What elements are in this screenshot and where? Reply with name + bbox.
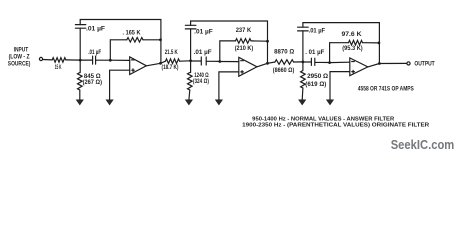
wire node D up to feedback rail stage2 bbox=[220, 41, 236, 62]
svg-text:4558 OR 741S OP AMPS: 4558 OR 741S OP AMPS bbox=[358, 86, 414, 92]
ground under R8 bbox=[299, 100, 306, 105]
wire top rail stage 3 bbox=[303, 23, 380, 64]
svg-text:(8660 Ω): (8660 Ω) bbox=[273, 68, 295, 74]
wire top rail stage 2 bbox=[191, 21, 268, 63]
wire node B up to feedback rail bbox=[110, 40, 127, 60]
wire R3 to output node bbox=[143, 39, 161, 41]
svg-text:8870 Ω: 8870 Ω bbox=[274, 50, 294, 56]
U3 plus sign bbox=[352, 70, 355, 73]
resistor R3 165K feedback bbox=[127, 38, 143, 43]
svg-text:(18.7 K): (18.7 K) bbox=[162, 65, 179, 71]
capacitor C5 .01uF (top, stage3) bbox=[298, 27, 309, 31]
wire U1 output to stage1 output node bbox=[146, 63, 160, 66]
U1 minus sign bbox=[132, 59, 135, 61]
svg-text:(619 Ω): (619 Ω) bbox=[305, 82, 326, 88]
wire node D to op-amp U2 inverting input bbox=[220, 61, 239, 63]
wire node A down to R2 bbox=[79, 60, 81, 72]
resistor R1 15K bbox=[52, 58, 66, 63]
svg-text:. 01 µF: . 01 µF bbox=[305, 49, 324, 56]
ground under U2 plus input bbox=[215, 100, 222, 105]
junction feedback rail / output vertical stage2 bbox=[266, 40, 269, 43]
node E bbox=[302, 61, 305, 64]
wire output node to R4 bbox=[161, 61, 166, 63]
wire U2 noninverting input to ground drop bbox=[219, 72, 239, 100]
resistor R2 845 ohm shunt bbox=[78, 73, 83, 91]
ground under R5 bbox=[185, 100, 192, 105]
wire output node to R7 bbox=[268, 62, 276, 63]
wire R6 to stage2 output vertical bbox=[251, 40, 268, 42]
capacitor C6 .01uF (series, stage3) bbox=[303, 58, 330, 65]
wire R1 to node A bbox=[66, 59, 80, 61]
resistor R6 237K (210K) feedback bbox=[236, 39, 252, 44]
node A bbox=[79, 59, 82, 62]
wire R2 to ground bbox=[79, 90, 81, 100]
node stage1 output bbox=[159, 62, 162, 65]
svg-text:(95.3 K): (95.3 K) bbox=[342, 46, 363, 52]
svg-text:15 K: 15 K bbox=[55, 65, 62, 71]
svg-text:.01 µF: .01 µF bbox=[194, 49, 212, 56]
svg-text:(210 K): (210 K) bbox=[235, 46, 254, 52]
wire C5 to top rail stage3 bbox=[302, 23, 304, 28]
wire node E down to R8 bbox=[301, 62, 306, 88]
wire R9 to stage3 output vertical bbox=[363, 42, 380, 44]
junction feedback rail / output vertical stage1 bbox=[159, 38, 162, 41]
U2 minus sign bbox=[241, 60, 244, 62]
svg-text:(324 Ω): (324 Ω) bbox=[193, 79, 209, 85]
wire node F to op-amp U3 inverting input bbox=[330, 61, 350, 63]
wire R4 to node C bbox=[180, 60, 191, 62]
resistor R9 97.6K (95.3K) feedback bbox=[349, 40, 363, 45]
ground under R2 bbox=[76, 100, 83, 105]
wire input to R1 bbox=[43, 59, 52, 61]
wire U1 noninverting input to ground drop bbox=[110, 70, 130, 100]
wire to output terminal bbox=[379, 62, 406, 64]
node B bbox=[109, 59, 112, 62]
capacitor C2 .01uF (series) bbox=[80, 56, 110, 64]
svg-text:(LOW - Z: (LOW - Z bbox=[9, 53, 30, 60]
wire node C down to R5 bbox=[188, 61, 193, 90]
ground under U3 plus input bbox=[327, 100, 334, 105]
ground under U1 plus input bbox=[106, 100, 113, 105]
U3 minus sign bbox=[352, 61, 355, 63]
junction feedback rail / output vertical stage3 bbox=[378, 42, 381, 45]
wire R7 to node E bbox=[294, 61, 303, 63]
wire node F up to feedback rail stage3 bbox=[330, 43, 349, 63]
op-amp U3 bbox=[350, 58, 368, 76]
svg-text:1900-2350 Hz - (PARENTHETICAL: 1900-2350 Hz - (PARENTHETICAL VALUES) OR… bbox=[242, 122, 430, 128]
node output bbox=[378, 62, 381, 65]
svg-text:21.5 K: 21.5 K bbox=[165, 50, 178, 56]
wire node A up to C1 bbox=[79, 28, 81, 60]
wire U3 noninverting input to ground drop bbox=[330, 72, 350, 100]
wire node C up to C3 bbox=[190, 29, 192, 61]
output terminal circle bbox=[407, 62, 410, 65]
svg-text:OUTPUT: OUTPUT bbox=[414, 60, 434, 67]
svg-text:.01 µF: .01 µF bbox=[88, 49, 101, 56]
node stage2 output bbox=[266, 62, 269, 65]
U1 plus sign bbox=[132, 69, 135, 72]
svg-text:SOURCE): SOURCE) bbox=[8, 61, 31, 68]
svg-text:(267 Ω): (267 Ω) bbox=[83, 80, 102, 86]
wire C3 to top rail stage2 bbox=[190, 21, 192, 25]
svg-text:SeekIC.com: SeekIC.com bbox=[391, 137, 455, 152]
wire node B to op-amp U1 inverting input bbox=[110, 59, 129, 61]
svg-text:2950 Ω: 2950 Ω bbox=[307, 74, 328, 80]
wire top rail stage 1 bbox=[80, 20, 161, 64]
wire R5 to ground bbox=[188, 90, 191, 100]
wire R8 to ground bbox=[301, 88, 304, 100]
svg-text:97.6 K: 97.6 K bbox=[342, 32, 363, 38]
capacitor C4 .01uF (series, stage2) bbox=[191, 57, 220, 65]
op-amp U1 bbox=[130, 57, 147, 75]
node F bbox=[328, 61, 331, 64]
wire node E up to C5 bbox=[302, 31, 304, 62]
svg-text:. 165 K: . 165 K bbox=[123, 30, 141, 37]
op-amp U2 bbox=[239, 57, 257, 76]
capacitor C1 .01uF (top, vertical plates) bbox=[75, 25, 85, 29]
node D bbox=[218, 60, 221, 63]
node C bbox=[189, 59, 192, 62]
svg-text:.01 µF: .01 µF bbox=[194, 29, 213, 36]
svg-text:.01 µF: .01 µF bbox=[86, 26, 105, 33]
input terminal circle bbox=[39, 57, 42, 60]
U2 plus sign bbox=[241, 71, 244, 74]
resistor R7 8870 ohm (8660 ohm) bbox=[275, 60, 294, 65]
wire C1 to top rail stage1 bbox=[79, 20, 81, 25]
svg-text:.01 µF: .01 µF bbox=[309, 27, 326, 34]
wire U2 output to stage2 output node bbox=[257, 63, 268, 67]
resistor R4 21.5K (18.7K) bbox=[166, 59, 180, 64]
capacitor C3 .01uF (top, stage2) bbox=[185, 25, 196, 29]
wire U3 output to final output node bbox=[368, 64, 380, 67]
svg-text:237 K: 237 K bbox=[236, 28, 252, 34]
